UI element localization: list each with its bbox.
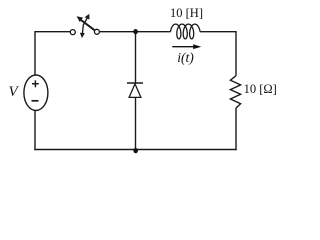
wire top-middle segment [99,31,170,33]
wire middle vertical lower [135,97,137,150]
switch motion arrow shaft [82,18,87,34]
switch blade arrowhead [77,16,84,22]
wire top-right segment [200,31,236,33]
voltage source plus sign [32,80,39,87]
wire left vertical upper [34,31,36,75]
wire top-left segment [35,31,70,33]
wire right vertical lower [235,108,237,150]
wire right vertical upper [235,31,237,76]
resistor R1 zigzag [230,76,240,108]
junction dot bottom [133,148,138,153]
diode D1 triangle [129,84,141,98]
current arrow i(t) head [193,44,201,49]
svg-text:10 [H]: 10 [H] [170,6,203,20]
svg-text:10 [Ω]: 10 [Ω] [244,82,277,96]
switch right terminal circle [94,29,99,34]
current arrow i(t) shaft [172,46,195,48]
voltage source minus sign [32,100,39,102]
switch motion arrowhead up-right [85,14,90,20]
inductor L1 coil [171,24,201,39]
switch blade [80,20,95,31]
switch motion arrowhead down [80,33,85,38]
wire middle vertical upper [135,32,137,83]
switch left terminal circle [70,30,75,35]
diode D1 cathode bar [127,82,143,84]
svg-text:i(t): i(t) [177,50,194,66]
wire bottom segment [34,149,236,151]
junction dot top [133,29,138,34]
wire left vertical lower [34,110,36,150]
voltage source V ellipse [24,75,48,110]
